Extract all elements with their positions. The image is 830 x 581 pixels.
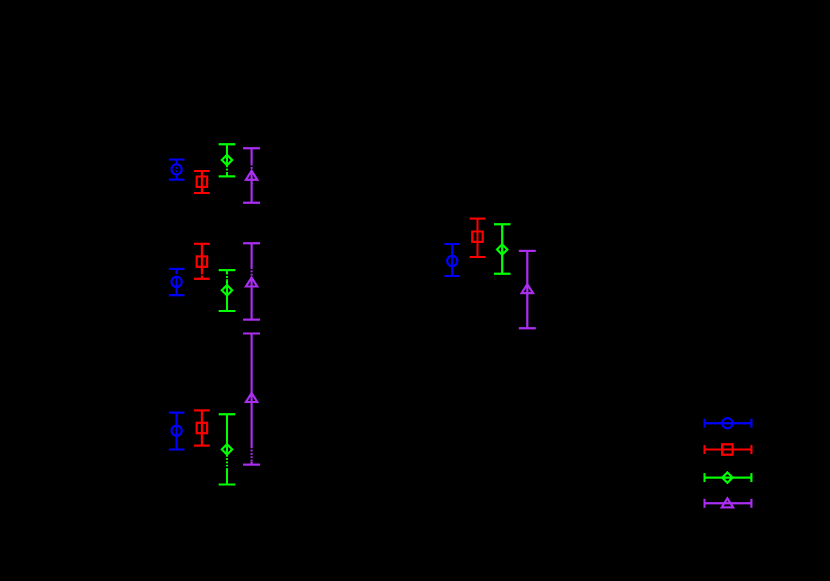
errorbar purple group2: triangle marker, bar 243.2-319.6	[243, 243, 260, 319]
legend entry purple triangle	[705, 498, 752, 507]
errorbar red group2: square marker, bar 243.8-278.8	[194, 244, 210, 279]
errorbar green group1: diamond marker, bar 144.2-176.4	[219, 144, 235, 176]
legend entry blue circle	[705, 418, 752, 428]
errorbar blue group1: circle marker, bar 159.5-179.6	[169, 160, 184, 180]
errorbar blue group3: circle marker, bar 412.6-449.5	[169, 413, 184, 450]
errorbar blue group4: circle marker, bar 244.0-276.0	[445, 244, 460, 276]
legend entry red square	[705, 444, 752, 454]
errorbar purple group3: triangle marker, bar 333.5-464.6	[243, 334, 260, 465]
errorbar red group1: square marker, bar 171.0-193.0	[194, 171, 210, 193]
errorbar purple group4: triangle marker, bar 250.9-328.3	[519, 251, 536, 328]
errorbar blue group2: circle marker, bar 268.9-295.2	[169, 269, 184, 295]
legend entry green diamond	[705, 472, 752, 482]
errorbar red group3: square marker, bar 410.4-445.6	[194, 410, 210, 445]
errorbar purple group1: triangle marker, bar 148.2-202.7	[243, 148, 260, 203]
errorbar green group4: diamond marker, bar 224.2-273.8	[494, 224, 510, 274]
errorbar green group3: diamond marker, bar 414.3-484.5	[219, 414, 235, 484]
errorbar red group4: square marker, bar 218.6-257.0	[470, 219, 486, 257]
errorbar green group2: diamond marker, bar 270.1-311.0	[219, 270, 235, 311]
